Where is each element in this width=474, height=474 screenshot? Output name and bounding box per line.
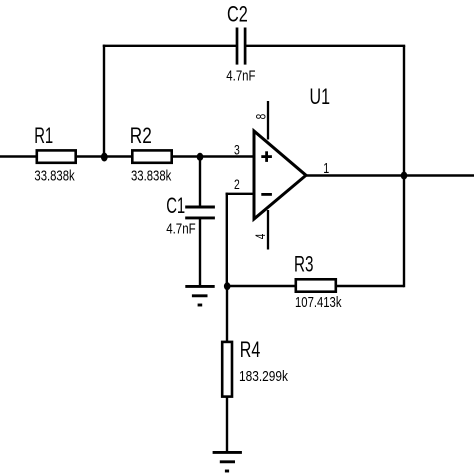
svg-text:4: 4	[252, 233, 268, 239]
node dot feedback junction	[224, 282, 231, 290]
resistor R3	[294, 252, 342, 311]
wire pin 2 vertical down	[226, 193, 228, 287]
wire pin 2 horizontal	[226, 193, 255, 195]
svg-text:4.7nF: 4.7nF	[166, 222, 196, 238]
wire op-amp output to right edge	[306, 174, 474, 176]
svg-text:4.7nF: 4.7nF	[226, 69, 255, 85]
resistor R2	[130, 123, 172, 184]
wire C1 bottom to ground	[199, 218, 201, 287]
capacitor C2	[226, 1, 255, 84]
svg-text:33.838k: 33.838k	[34, 169, 75, 185]
wire top left to C2	[103, 45, 237, 47]
svg-text:3: 3	[234, 141, 240, 157]
node dot R2/pin3 junction	[197, 153, 204, 161]
wire right vertical x=404	[403, 46, 405, 287]
svg-text:R2: R2	[130, 123, 152, 148]
wire C2 to right vertical	[246, 45, 406, 47]
wire node down to R4	[226, 286, 228, 342]
wire R1 to R2	[76, 155, 132, 157]
svg-text:33.838k: 33.838k	[131, 169, 172, 185]
ground under C1	[185, 286, 214, 305]
svg-text:C2: C2	[227, 1, 248, 26]
op-amp U1	[234, 84, 330, 250]
svg-text:183.299k: 183.299k	[239, 369, 289, 385]
wire R3 to right vertical	[336, 285, 404, 287]
resistor R1	[34, 123, 75, 184]
node dot output junction	[401, 172, 408, 180]
svg-text:R1: R1	[34, 123, 53, 148]
op-amp U1 triangle	[254, 131, 306, 219]
svg-text:1: 1	[323, 161, 329, 177]
pin 4 line	[267, 210, 269, 250]
wire R2 to op-amp pin 3	[172, 155, 254, 157]
resistor R4	[222, 337, 288, 397]
wire input to R1	[0, 155, 37, 157]
op-amp plus sign	[261, 151, 272, 162]
pin 8 line	[267, 101, 269, 140]
node dot R1/R2 junction	[101, 153, 108, 162]
wire R4 to ground	[226, 396, 228, 453]
wire node to C1 top	[199, 157, 201, 208]
svg-text:107.413k: 107.413k	[295, 295, 342, 311]
wire feedback vertical at x=104	[103, 45, 105, 158]
svg-text:2: 2	[234, 176, 240, 192]
svg-text:U1: U1	[310, 84, 331, 109]
capacitor C1	[166, 193, 215, 238]
ground under R4	[213, 452, 242, 471]
svg-text:C1: C1	[166, 193, 185, 218]
wire node to R3	[227, 285, 295, 287]
svg-text:8: 8	[252, 114, 268, 120]
svg-text:R3: R3	[294, 252, 314, 277]
op-amp minus sign	[261, 193, 272, 196]
svg-text:R4: R4	[240, 337, 260, 362]
